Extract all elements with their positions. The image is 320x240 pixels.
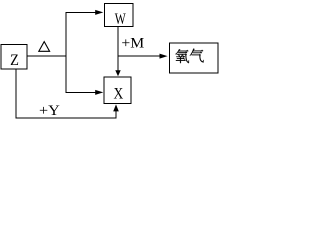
svg-text:+Y: +Y bbox=[39, 103, 60, 119]
wire W bottom down to X bbox=[117, 26, 119, 70]
svg-text:X: X bbox=[114, 85, 124, 102]
arrowhead into oxygen box bbox=[160, 54, 168, 59]
wire fork bottom to X left bbox=[66, 91, 96, 93]
svg-text:+M: +M bbox=[121, 36, 144, 52]
box W bbox=[105, 3, 134, 28]
wire bottom horizontal (+Y path) bbox=[16, 117, 117, 119]
arrowhead into W bbox=[95, 10, 103, 15]
label delta (heat) triangle bbox=[39, 42, 50, 52]
arrowhead into X bottom bbox=[113, 104, 119, 111]
wire branch to oxygen box bbox=[118, 55, 161, 57]
wire Z right to fork junction bbox=[27, 55, 66, 57]
arrowhead into X top bbox=[115, 70, 120, 76]
arrowhead into X left bbox=[95, 90, 103, 95]
box X bbox=[104, 77, 131, 103]
wire fork vertical bbox=[65, 12, 67, 93]
svg-text:Z: Z bbox=[10, 52, 19, 69]
box Z bbox=[1, 45, 27, 70]
wire up into X bottom bbox=[115, 111, 117, 119]
wire fork top to W bbox=[66, 11, 96, 13]
wire Z bottom down bbox=[15, 69, 17, 119]
svg-text:W: W bbox=[115, 11, 127, 28]
box oxygen (氧气) bbox=[169, 43, 218, 73]
